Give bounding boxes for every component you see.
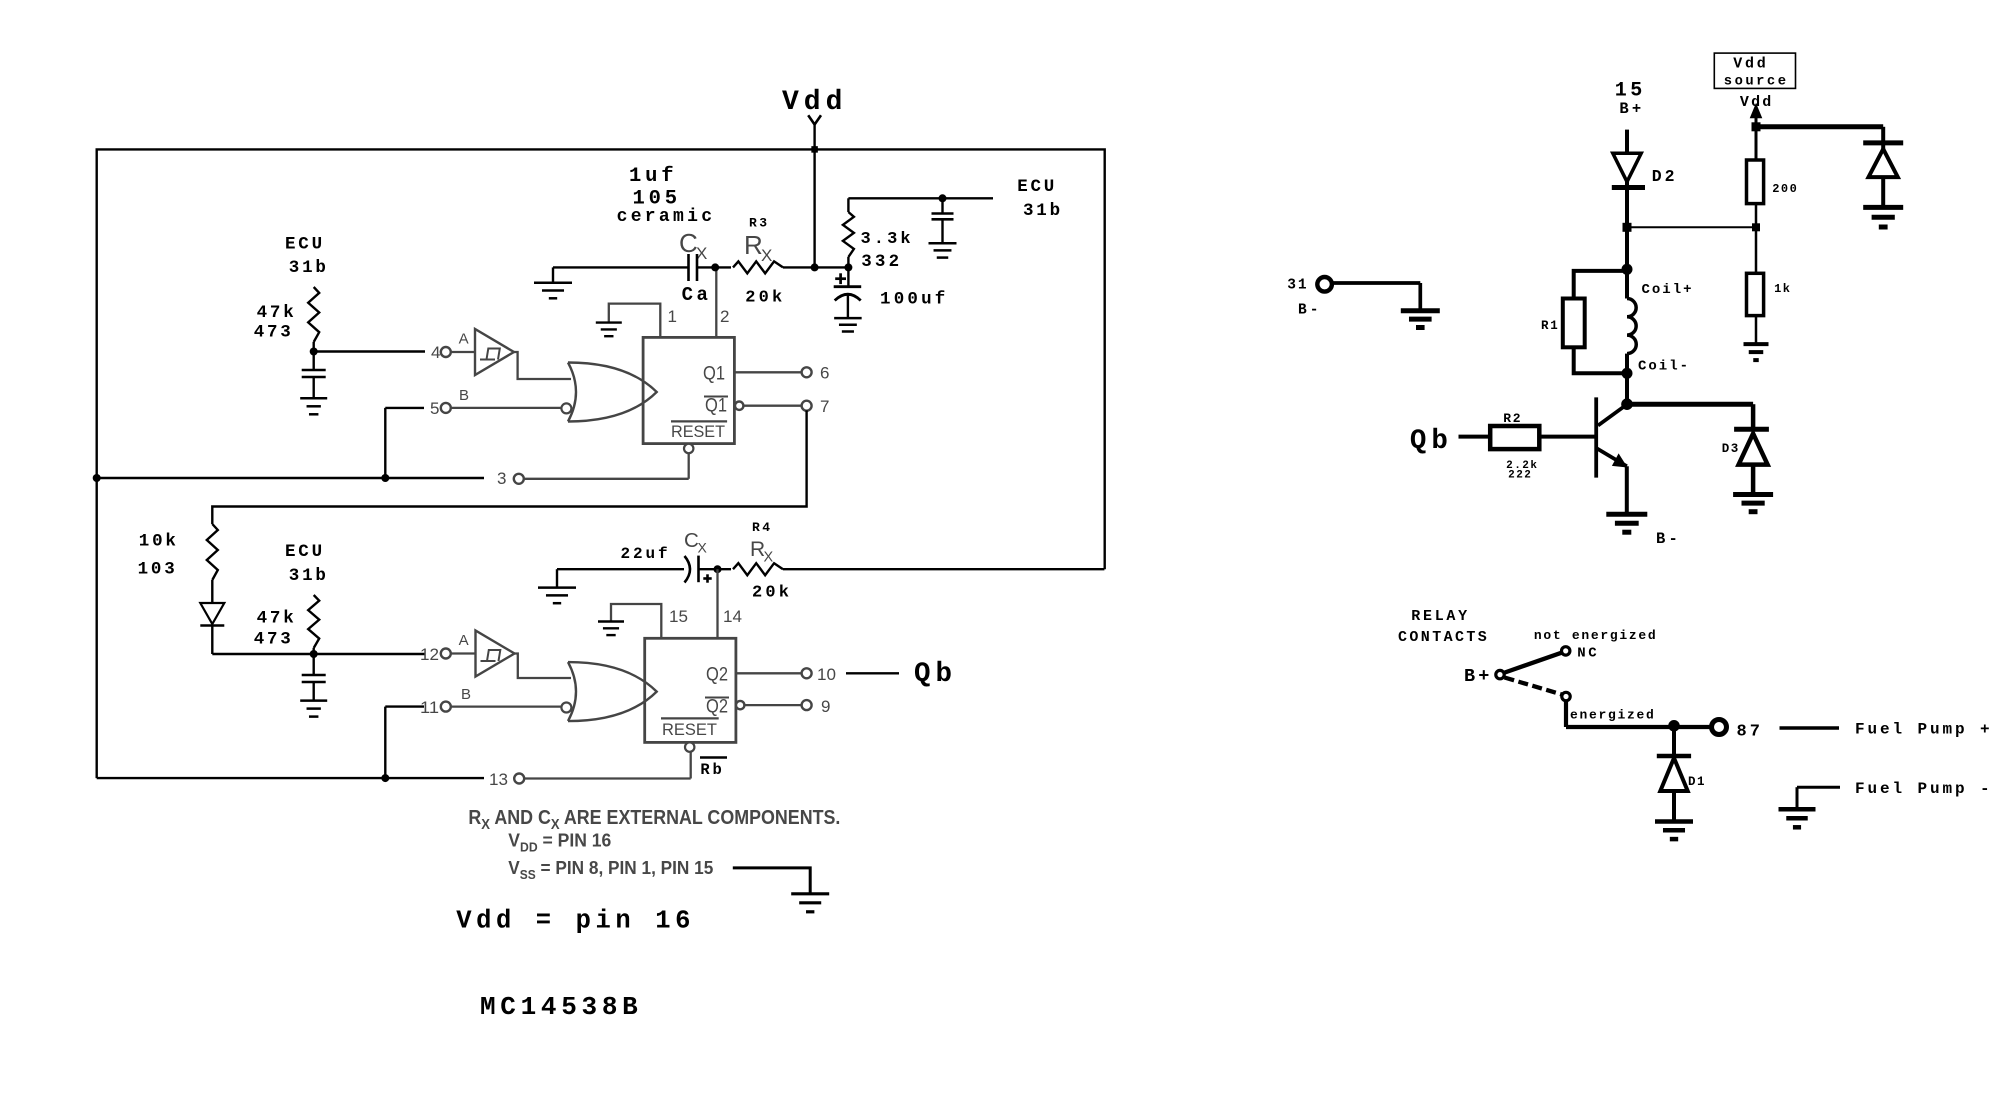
svg-text:ECU: ECU [285, 235, 325, 255]
svg-text:103: 103 [138, 560, 178, 580]
svg-text:2: 2 [720, 307, 729, 326]
svg-text:Qb: Qb [1410, 426, 1453, 457]
svg-text:9: 9 [821, 697, 830, 716]
svg-text:D3: D3 [1722, 442, 1740, 456]
svg-text:C: C [679, 228, 698, 258]
svg-text:4: 4 [431, 343, 440, 362]
svg-text:10: 10 [817, 665, 836, 684]
svg-text:100uf: 100uf [880, 290, 949, 310]
svg-text:Q1: Q1 [705, 396, 727, 417]
svg-text:R2: R2 [1503, 411, 1522, 426]
svg-text:6: 6 [820, 364, 829, 383]
svg-text:RESET: RESET [671, 422, 725, 441]
svg-text:energized: energized [1570, 708, 1656, 723]
svg-text:1: 1 [668, 307, 677, 326]
svg-text:47k: 47k [257, 303, 297, 323]
svg-text:1k: 1k [1774, 282, 1791, 296]
svg-text:X: X [761, 246, 772, 265]
svg-text:B: B [459, 387, 469, 404]
svg-text:Ca: Ca [682, 284, 712, 306]
svg-text:222: 222 [1508, 470, 1532, 482]
svg-text:Vdd: Vdd [1733, 56, 1768, 73]
svg-text:D1: D1 [1688, 775, 1706, 789]
svg-text:A: A [459, 331, 469, 348]
svg-text:Rb: Rb [700, 761, 724, 779]
svg-text:31: 31 [1287, 278, 1308, 294]
svg-text:Vdd = pin 16: Vdd = pin 16 [456, 907, 695, 936]
svg-text:Coil+: Coil+ [1642, 282, 1694, 298]
svg-text:3.3k: 3.3k [861, 230, 914, 249]
svg-text:R: R [744, 230, 763, 260]
svg-text:MC14538B: MC14538B [480, 992, 642, 1022]
svg-text:Q2: Q2 [706, 697, 728, 718]
svg-text:CONTACTS: CONTACTS [1398, 629, 1489, 646]
svg-text:473: 473 [254, 630, 294, 650]
svg-text:Fuel Pump -: Fuel Pump - [1855, 780, 1993, 798]
svg-text:RX AND CX ARE EXTERNAL COMPONE: RX AND CX ARE EXTERNAL COMPONENTS. [468, 806, 840, 833]
svg-text:X: X [764, 550, 774, 566]
svg-text:12: 12 [420, 645, 439, 664]
svg-text:20k: 20k [745, 289, 785, 308]
svg-text:D2: D2 [1652, 167, 1678, 186]
svg-text:A: A [459, 632, 469, 649]
svg-text:Fuel Pump +: Fuel Pump + [1855, 721, 1993, 739]
svg-text:10k: 10k [139, 532, 179, 552]
svg-text:ceramic: ceramic [617, 207, 716, 227]
svg-text:20k: 20k [752, 584, 792, 603]
svg-text:RESET: RESET [662, 720, 717, 739]
svg-text:B+: B+ [1464, 666, 1493, 687]
svg-text:3: 3 [497, 469, 506, 488]
svg-text:332: 332 [861, 252, 902, 272]
svg-text:R3: R3 [749, 216, 769, 231]
svg-text:source: source [1724, 75, 1789, 90]
svg-text:B-: B- [1656, 530, 1681, 548]
svg-text:31b: 31b [289, 566, 329, 586]
svg-text:11: 11 [420, 698, 439, 717]
svg-text:31b: 31b [1023, 201, 1063, 221]
svg-text:X: X [698, 540, 708, 556]
svg-text:not energized: not energized [1534, 628, 1658, 643]
svg-text:14: 14 [723, 607, 742, 626]
svg-text:ECU: ECU [1017, 177, 1057, 197]
svg-text:Vdd: Vdd [782, 87, 847, 118]
svg-text:Qb: Qb [914, 659, 957, 690]
svg-text:B: B [461, 686, 471, 703]
svg-text:22uf: 22uf [621, 545, 671, 563]
svg-text:B+: B+ [1619, 100, 1644, 118]
svg-text:31b: 31b [289, 258, 329, 278]
svg-text:1uf: 1uf [629, 165, 677, 188]
svg-text:87: 87 [1737, 723, 1763, 742]
svg-text:RELAY: RELAY [1411, 608, 1470, 625]
svg-text:13: 13 [489, 770, 508, 789]
svg-text:5: 5 [430, 399, 439, 418]
svg-text:R4: R4 [752, 520, 772, 535]
svg-text:ECU: ECU [285, 542, 325, 562]
svg-text:7: 7 [820, 397, 829, 416]
svg-text:Q1: Q1 [703, 364, 725, 385]
svg-text:R1: R1 [1541, 319, 1560, 333]
svg-text:B-: B- [1298, 303, 1321, 319]
svg-text:Q2: Q2 [706, 665, 728, 686]
svg-text:NC: NC [1577, 646, 1599, 662]
svg-text:47k: 47k [257, 609, 297, 629]
svg-text:15: 15 [669, 607, 688, 626]
svg-text:Coil-: Coil- [1638, 359, 1690, 375]
svg-text:473: 473 [254, 323, 294, 343]
svg-text:200: 200 [1772, 182, 1798, 196]
